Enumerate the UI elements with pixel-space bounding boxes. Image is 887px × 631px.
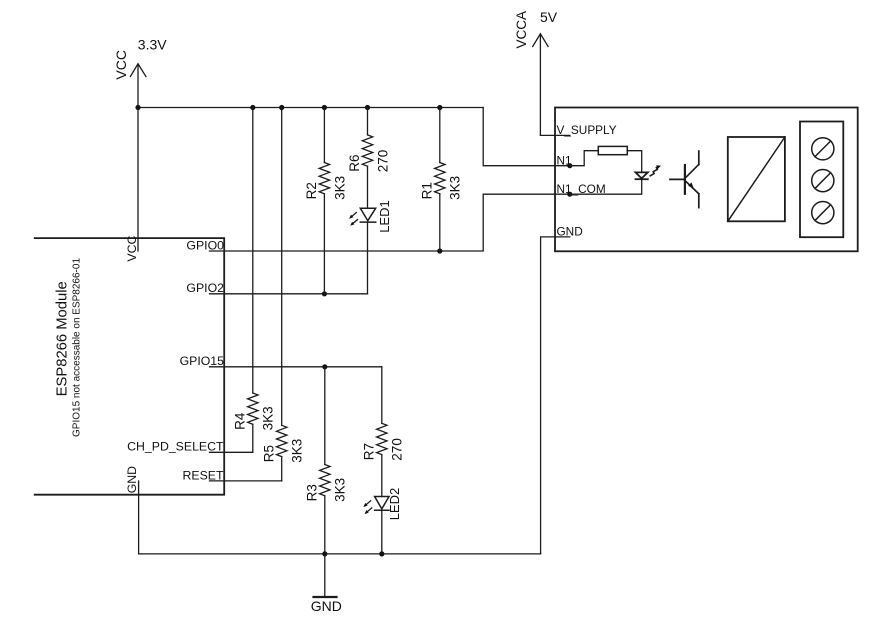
resistor R4 3K3 xyxy=(232,108,275,453)
resistor R6 270 xyxy=(347,108,390,209)
svg-text:GPIO0: GPIO0 xyxy=(186,238,224,252)
wire opto LED to N1_COM xyxy=(570,179,642,194)
svg-text:R1: R1 xyxy=(419,182,434,199)
node rail junction R6 xyxy=(365,105,370,110)
svg-text:R3: R3 xyxy=(304,484,319,501)
svg-text:LED2: LED2 xyxy=(387,488,402,521)
svg-text:LED1: LED1 xyxy=(377,200,392,233)
svg-text:3.3V: 3.3V xyxy=(138,37,167,53)
svg-text:VCC: VCC xyxy=(113,50,129,80)
svg-text:V_SUPPLY: V_SUPPLY xyxy=(557,123,617,137)
wire resistor to opto LED xyxy=(627,151,641,173)
svg-text:GND: GND xyxy=(311,598,342,614)
node rail junction R5 xyxy=(279,105,284,110)
svg-text:5V: 5V xyxy=(540,9,558,25)
opto phototransistor Q xyxy=(670,151,699,208)
svg-text:R4: R4 xyxy=(232,412,247,430)
svg-text:VCC: VCC xyxy=(125,236,139,262)
resistor R7 270 xyxy=(361,367,404,497)
opto LED xyxy=(636,172,648,179)
svg-text:ESP8266 Module: ESP8266 Module xyxy=(55,281,71,396)
wire GPIO2 xyxy=(210,293,368,295)
node rail junction R4 xyxy=(250,105,255,110)
wire GPIO0 to relay N1_COM xyxy=(210,194,570,251)
node rail junction at VCC xyxy=(135,105,140,110)
svg-text:CH_PD_SELECT: CH_PD_SELECT xyxy=(127,440,224,454)
ground symbol GND xyxy=(311,554,342,614)
svg-text:3K3: 3K3 xyxy=(261,406,276,430)
relay coil box xyxy=(728,137,785,221)
svg-text:3K3: 3K3 xyxy=(333,478,348,502)
svg-text:R5: R5 xyxy=(261,445,276,462)
svg-text:GPIO15 not accessable on ESP82: GPIO15 not accessable on ESP8266-01 xyxy=(72,258,83,437)
wire RESET xyxy=(210,480,282,482)
wire 3.3V rail xyxy=(138,107,483,109)
svg-text:R6: R6 xyxy=(347,155,362,172)
svg-text:GND: GND xyxy=(557,224,583,238)
relay module outline xyxy=(555,108,858,252)
svg-text:R2: R2 xyxy=(304,182,319,199)
wire GPIO15 xyxy=(210,366,382,368)
svg-text:RESET: RESET xyxy=(183,468,224,482)
LED2 xyxy=(363,488,402,554)
resistor R5 3K3 xyxy=(261,108,304,481)
node relay N1_COM pin junction xyxy=(567,192,572,197)
wire ground bus xyxy=(139,553,541,555)
svg-text:3K3: 3K3 xyxy=(290,439,305,463)
node rail junction R2 xyxy=(322,105,327,110)
wire relay GND to ground bus xyxy=(541,237,570,554)
svg-text:GND: GND xyxy=(125,466,139,493)
wire VCCA to V_SUPPLY xyxy=(540,134,569,136)
node relay N1 pin junction xyxy=(567,163,572,168)
svg-text:GPIO2: GPIO2 xyxy=(186,281,224,295)
wire N1 to opto resistor xyxy=(570,151,599,166)
LED1 xyxy=(349,200,392,294)
svg-text:R7: R7 xyxy=(361,443,376,460)
supply VCCA 5V arrow xyxy=(533,34,548,136)
wire module GND pin xyxy=(138,481,140,554)
supply VCC 3.3V arrow xyxy=(130,64,146,108)
resistor R3 3K3 xyxy=(304,367,347,554)
node GPIO0 R1 junction xyxy=(437,248,442,253)
svg-text:3K3: 3K3 xyxy=(332,176,347,200)
svg-text:VCCA: VCCA xyxy=(514,11,529,49)
node rail junction R1 xyxy=(437,105,442,110)
wire CH_PD_SELECT xyxy=(210,451,253,453)
opto light squiggle arrow xyxy=(650,165,661,176)
wire VCC pin of module xyxy=(137,108,139,252)
svg-text:270: 270 xyxy=(375,150,390,173)
opto series resistor xyxy=(598,146,627,154)
node GPIO2 R2 junction xyxy=(322,291,327,296)
terminal block xyxy=(800,122,843,238)
node GPIO15 R3 junction xyxy=(322,364,327,369)
ESP8266 module outline xyxy=(35,238,225,495)
node ground LED2 junction xyxy=(379,551,384,556)
resistor R2 3K3 xyxy=(304,108,347,294)
svg-text:270: 270 xyxy=(390,438,405,461)
svg-text:3K3: 3K3 xyxy=(448,176,463,200)
svg-text:GPIO15: GPIO15 xyxy=(180,354,225,368)
resistor R1 3K3 xyxy=(419,108,462,252)
wire rail to relay N1 xyxy=(483,108,570,166)
node ground R3 junction xyxy=(322,551,327,556)
